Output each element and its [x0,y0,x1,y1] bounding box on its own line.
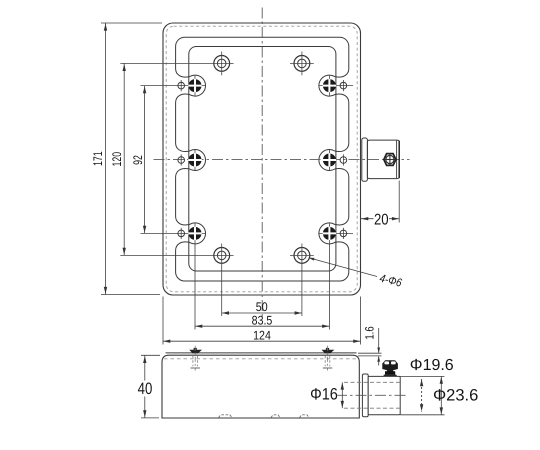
svg-text:Φ16: Φ16 [310,386,338,404]
svg-text:83.5: 83.5 [252,313,273,327]
svg-text:120: 120 [110,152,124,167]
svg-text:1.6: 1.6 [363,326,377,340]
svg-text:50: 50 [256,300,268,314]
svg-text:20: 20 [374,211,389,228]
svg-text:40: 40 [138,380,153,398]
svg-text:Φ19.6: Φ19.6 [410,357,454,374]
svg-text:Φ23.6: Φ23.6 [433,386,478,404]
svg-text:171: 171 [91,151,105,166]
svg-text:124: 124 [253,328,271,342]
svg-text:92: 92 [131,155,145,165]
